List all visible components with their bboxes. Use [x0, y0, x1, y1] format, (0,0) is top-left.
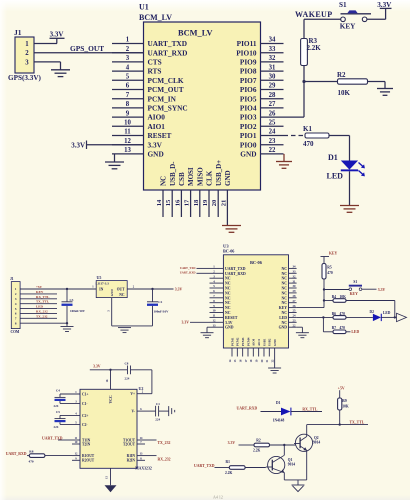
- svg-text:3: 3: [25, 59, 29, 66]
- svg-text:UART_TXD: UART_TXD: [180, 266, 196, 270]
- svg-text:R4: R4: [332, 295, 337, 299]
- svg-text:UART_RXD: UART_RXD: [6, 452, 27, 456]
- svg-text:Q1: Q1: [288, 458, 293, 462]
- svg-text:CSB: CSB: [178, 172, 186, 186]
- svg-text:MAX3232: MAX3232: [135, 467, 152, 471]
- svg-text:AIO1: AIO1: [148, 122, 166, 131]
- svg-text:224: 224: [54, 404, 59, 408]
- svg-text:21: 21: [266, 359, 269, 362]
- svg-text:NC: NC: [282, 301, 288, 305]
- svg-text:A4 12: A4 12: [213, 495, 223, 500]
- svg-text:9014: 9014: [288, 463, 295, 467]
- svg-text:100uF/16V: 100uF/16V: [154, 309, 170, 313]
- svg-text:C2-: C2-: [82, 423, 88, 427]
- svg-text:PIO2: PIO2: [240, 122, 257, 131]
- svg-text:WAKEUP: WAKEUP: [295, 10, 333, 19]
- svg-text:IN: IN: [99, 288, 103, 292]
- svg-text:NC: NC: [225, 311, 231, 315]
- svg-text:224: 224: [54, 425, 59, 429]
- svg-text:D2: D2: [370, 310, 375, 314]
- svg-text:GND: GND: [225, 326, 234, 330]
- svg-text:1N4148: 1N4148: [273, 418, 285, 422]
- svg-text:22: 22: [269, 147, 276, 154]
- svg-text:NC: NC: [119, 293, 125, 297]
- svg-text:33: 33: [293, 270, 297, 274]
- svg-text:VCC: VCC: [109, 395, 113, 403]
- svg-text:UART_TXD: UART_TXD: [225, 267, 246, 271]
- svg-text:20: 20: [211, 199, 218, 206]
- svg-text:4: 4: [126, 64, 130, 71]
- svg-text:MISO: MISO: [196, 167, 204, 186]
- svg-text:13: 13: [213, 323, 217, 327]
- svg-text:U1: U1: [139, 3, 149, 12]
- svg-text:PIO4: PIO4: [240, 104, 257, 113]
- svg-text:14: 14: [156, 199, 163, 206]
- svg-text:PCM_IN: PCM_IN: [148, 94, 177, 103]
- svg-text:LED: LED: [327, 172, 344, 181]
- svg-text:R7: R7: [332, 326, 337, 330]
- svg-text:C5: C5: [56, 410, 60, 414]
- svg-text:3.3V: 3.3V: [148, 140, 163, 149]
- svg-text:30: 30: [293, 284, 297, 288]
- svg-text:NC: NC: [225, 282, 231, 286]
- svg-text:R2: R2: [256, 439, 261, 443]
- svg-text:11: 11: [124, 129, 131, 136]
- svg-text:UART_TXD: UART_TXD: [148, 39, 187, 48]
- svg-text:28: 28: [293, 294, 297, 298]
- svg-text:12: 12: [213, 319, 217, 323]
- svg-text:PIO6: PIO6: [240, 85, 257, 94]
- svg-text:13: 13: [124, 147, 131, 154]
- svg-text:UART_RXD: UART_RXD: [148, 48, 188, 57]
- svg-text:LED: LED: [351, 330, 359, 334]
- svg-text:224: 224: [155, 417, 160, 421]
- svg-text:17: 17: [184, 199, 191, 206]
- svg-text:V+: V+: [130, 392, 135, 396]
- svg-text:32: 32: [269, 55, 276, 62]
- svg-text:3.3V: 3.3V: [377, 1, 392, 9]
- svg-text:2.2K: 2.2K: [225, 471, 232, 475]
- svg-text:R6: R6: [332, 312, 337, 316]
- svg-text:CTS: CTS: [148, 58, 162, 67]
- svg-text:470: 470: [327, 271, 333, 275]
- svg-text:470: 470: [29, 459, 34, 463]
- svg-text:KEY: KEY: [279, 306, 287, 310]
- svg-text:3.3V: 3.3V: [50, 30, 64, 38]
- svg-text:UART_RXD: UART_RXD: [225, 272, 246, 276]
- svg-text:12: 12: [124, 138, 131, 145]
- svg-text:11: 11: [213, 314, 216, 318]
- svg-text:R2IN: R2IN: [127, 459, 136, 463]
- svg-text:PCM_OUT: PCM_OUT: [148, 85, 184, 94]
- svg-text:25: 25: [293, 309, 297, 313]
- svg-text:PIO1: PIO1: [240, 131, 257, 140]
- svg-text:PIO5: PIO5: [240, 94, 257, 103]
- svg-text:18: 18: [250, 359, 253, 362]
- svg-text:NC: NC: [282, 272, 288, 276]
- svg-text:GND: GND: [279, 326, 288, 330]
- svg-text:470: 470: [340, 312, 346, 316]
- svg-text:L1117-3.3: L1117-3.3: [96, 281, 110, 285]
- svg-text:17: 17: [245, 359, 248, 362]
- svg-text:6: 6: [126, 83, 130, 90]
- svg-text:GND: GND: [224, 170, 232, 186]
- svg-text:TX_TTL: TX_TTL: [350, 421, 365, 425]
- svg-text:BCM_LV: BCM_LV: [178, 29, 213, 38]
- svg-text:3.3V: 3.3V: [93, 365, 101, 369]
- svg-text:NC: NC: [282, 282, 288, 286]
- svg-text:PCM_SYNC: PCM_SYNC: [148, 104, 188, 113]
- svg-text:J1: J1: [10, 277, 14, 281]
- svg-text:RESET: RESET: [148, 131, 172, 140]
- svg-text:PCM3: PCM3: [241, 337, 245, 346]
- svg-text:D1: D1: [276, 401, 281, 405]
- svg-text:USB2: USB2: [268, 338, 272, 346]
- svg-text:16: 16: [174, 199, 181, 206]
- svg-text:3.3V: 3.3V: [182, 321, 190, 325]
- svg-text:NC: NC: [225, 296, 231, 300]
- svg-text:18: 18: [193, 199, 200, 206]
- svg-text:C2: C2: [158, 300, 162, 304]
- svg-text:21: 21: [220, 200, 227, 207]
- svg-text:224: 224: [125, 376, 130, 380]
- svg-text:AIO0: AIO0: [252, 338, 256, 346]
- svg-text:GND: GND: [110, 289, 114, 297]
- svg-text:28: 28: [269, 92, 276, 99]
- svg-text:31: 31: [293, 279, 297, 283]
- svg-text:GND: GND: [148, 150, 164, 159]
- svg-text:PCM4: PCM4: [246, 337, 250, 346]
- svg-text:23: 23: [269, 138, 276, 145]
- svg-text:USB_D-: USB_D-: [169, 161, 177, 186]
- svg-text:32: 32: [293, 274, 297, 278]
- svg-text:16: 16: [239, 359, 242, 362]
- svg-text:RX_TTL: RX_TTL: [36, 295, 50, 299]
- svg-text:MOSI: MOSI: [187, 167, 195, 186]
- svg-text:AIO0: AIO0: [148, 113, 166, 122]
- svg-text:NC: NC: [225, 301, 231, 305]
- svg-text:470: 470: [303, 140, 314, 148]
- svg-text:UART_TXD: UART_TXD: [194, 464, 215, 468]
- svg-text:UART_RXD: UART_RXD: [237, 406, 258, 410]
- svg-text:8: 8: [126, 101, 130, 108]
- svg-text:2: 2: [133, 286, 135, 289]
- svg-text:9: 9: [126, 110, 130, 117]
- svg-text:10: 10: [124, 120, 131, 127]
- svg-text:R1OUT: R1OUT: [82, 454, 95, 458]
- svg-text:2: 2: [142, 391, 144, 394]
- svg-text:24: 24: [293, 314, 297, 318]
- svg-text:KEY: KEY: [350, 292, 358, 296]
- svg-text:GND: GND: [273, 339, 277, 347]
- svg-text:NC: NC: [282, 311, 288, 315]
- svg-text:15: 15: [165, 199, 172, 206]
- svg-text:R1: R1: [226, 460, 231, 464]
- svg-text:NC: NC: [225, 306, 231, 310]
- svg-text:34: 34: [293, 265, 297, 269]
- svg-text:10K: 10K: [342, 404, 349, 408]
- svg-text:GND: GND: [240, 150, 256, 159]
- svg-text:R1IN: R1IN: [127, 454, 136, 458]
- svg-text:3.3V: 3.3V: [175, 287, 183, 291]
- svg-text:29: 29: [293, 289, 297, 293]
- svg-text:100uF/10V: 100uF/10V: [70, 309, 86, 313]
- svg-text:+5V: +5V: [36, 285, 43, 289]
- svg-text:10: 10: [213, 309, 217, 313]
- svg-text:OUT: OUT: [117, 288, 125, 292]
- svg-text:26: 26: [269, 110, 276, 117]
- svg-text:C8: C8: [125, 361, 129, 365]
- svg-text:USB_D+: USB_D+: [215, 160, 223, 186]
- svg-text:UART_RXD: UART_RXD: [180, 271, 196, 275]
- svg-text:NC: NC: [282, 296, 288, 300]
- svg-text:34: 34: [269, 37, 276, 44]
- svg-text:27: 27: [269, 101, 276, 108]
- svg-text:RTS: RTS: [148, 67, 162, 76]
- svg-text:PIO9: PIO9: [240, 58, 257, 67]
- svg-text:9014: 9014: [313, 441, 320, 445]
- svg-text:RESET: RESET: [225, 316, 238, 320]
- svg-text:5: 5: [126, 74, 130, 81]
- svg-text:7: 7: [126, 92, 130, 99]
- svg-text:3: 3: [126, 55, 130, 62]
- svg-text:16: 16: [106, 379, 109, 382]
- svg-text:GPS(3.3V): GPS(3.3V): [8, 74, 42, 82]
- svg-text:PCM_CLK: PCM_CLK: [148, 76, 184, 85]
- svg-text:22: 22: [271, 359, 274, 362]
- svg-text:TX_232: TX_232: [158, 441, 171, 445]
- svg-text:14: 14: [229, 359, 232, 362]
- svg-text:R8: R8: [29, 450, 33, 454]
- svg-text:+5V: +5V: [338, 387, 345, 391]
- svg-text:1: 1: [25, 41, 29, 48]
- svg-text:PCM1: PCM1: [230, 337, 234, 346]
- svg-text:NC: NC: [225, 277, 231, 281]
- svg-text:Q2: Q2: [314, 436, 319, 440]
- svg-text:R9: R9: [342, 399, 347, 403]
- svg-text:KEY: KEY: [340, 23, 356, 31]
- svg-text:22: 22: [293, 323, 297, 327]
- svg-text:PIO7: PIO7: [240, 76, 257, 85]
- svg-text:30: 30: [269, 74, 276, 81]
- svg-text:27: 27: [293, 299, 297, 303]
- svg-text:C1-: C1-: [82, 402, 88, 406]
- svg-text:PIO8: PIO8: [240, 67, 257, 76]
- svg-text:K1: K1: [303, 125, 312, 133]
- svg-text:AIO1: AIO1: [257, 338, 261, 346]
- svg-text:PIO0: PIO0: [240, 140, 257, 149]
- svg-text:15: 15: [234, 359, 237, 362]
- svg-text:NC: NC: [282, 321, 288, 325]
- svg-text:C2+: C2+: [82, 414, 88, 418]
- svg-text:LED: LED: [383, 311, 391, 315]
- svg-text:PCM2: PCM2: [236, 337, 240, 346]
- svg-text:C3: C3: [70, 298, 74, 302]
- svg-text:NC: NC: [282, 277, 288, 281]
- svg-text:31: 31: [269, 64, 276, 71]
- svg-text:29: 29: [269, 83, 276, 90]
- svg-text:BCM_LV: BCM_LV: [139, 13, 172, 22]
- svg-text:TX_232: TX_232: [36, 314, 48, 318]
- svg-text:KEY: KEY: [36, 290, 44, 294]
- svg-text:NC: NC: [225, 291, 231, 295]
- svg-text:3: 3: [107, 310, 110, 312]
- svg-text:19: 19: [255, 359, 258, 362]
- svg-text:C1+: C1+: [82, 392, 88, 396]
- svg-text:NC: NC: [282, 291, 288, 295]
- svg-text:LED: LED: [36, 305, 44, 309]
- svg-text:NC: NC: [282, 267, 288, 271]
- svg-text:RX_232: RX_232: [158, 458, 171, 462]
- svg-text:3.3V: 3.3V: [378, 288, 386, 292]
- svg-text:23: 23: [293, 319, 297, 323]
- svg-text:J1: J1: [14, 28, 22, 37]
- svg-text:15: 15: [106, 476, 109, 479]
- svg-text:3.3V: 3.3V: [225, 321, 233, 325]
- svg-text:25: 25: [269, 120, 276, 127]
- svg-text:2: 2: [126, 46, 130, 53]
- svg-text:2: 2: [25, 50, 29, 57]
- svg-text:USB1: USB1: [262, 338, 266, 346]
- svg-text:TX_TTL: TX_TTL: [36, 300, 50, 304]
- svg-text:26: 26: [293, 304, 297, 308]
- svg-text:C4: C4: [56, 389, 60, 393]
- svg-text:NC: NC: [225, 287, 231, 291]
- svg-text:BC-06: BC-06: [250, 260, 263, 265]
- svg-text:LED: LED: [279, 316, 287, 320]
- svg-text:1: 1: [126, 37, 130, 44]
- svg-text:24: 24: [269, 129, 276, 136]
- svg-text:R2: R2: [337, 71, 346, 79]
- svg-text:S1: S1: [353, 280, 357, 284]
- svg-text:NC: NC: [160, 176, 168, 186]
- svg-text:KEY: KEY: [329, 252, 337, 256]
- svg-text:R5: R5: [327, 266, 332, 270]
- svg-text:2.2K: 2.2K: [253, 448, 260, 452]
- svg-text:T2OUT: T2OUT: [123, 442, 136, 446]
- svg-text:BC-06: BC-06: [223, 248, 234, 253]
- svg-text:S1: S1: [339, 1, 347, 9]
- svg-text:470: 470: [340, 326, 346, 330]
- svg-text:COM: COM: [11, 330, 20, 334]
- svg-text:D1: D1: [328, 153, 338, 162]
- svg-text:1: 1: [92, 286, 94, 289]
- svg-text:RX_TTL: RX_TTL: [302, 408, 317, 412]
- svg-text:PIO11: PIO11: [237, 39, 257, 48]
- svg-text:GPS_OUT: GPS_OUT: [70, 44, 104, 53]
- svg-text:U5: U5: [97, 275, 102, 280]
- svg-text:T2IN: T2IN: [82, 442, 91, 446]
- svg-text:19: 19: [202, 199, 209, 206]
- svg-text:3.3V: 3.3V: [71, 141, 85, 149]
- svg-text:C1: C1: [156, 402, 160, 406]
- svg-text:10K: 10K: [338, 89, 351, 97]
- svg-text:R2OUT: R2OUT: [82, 459, 95, 463]
- svg-text:2.2K: 2.2K: [307, 44, 322, 52]
- svg-text:10K: 10K: [340, 295, 347, 299]
- svg-text:PIO10: PIO10: [236, 48, 257, 57]
- svg-text:20: 20: [261, 359, 264, 362]
- svg-text:33: 33: [269, 46, 276, 53]
- svg-text:3.3V: 3.3V: [228, 441, 236, 445]
- svg-text:PIO3: PIO3: [240, 113, 257, 122]
- svg-text:RX_232: RX_232: [36, 309, 48, 313]
- svg-text:CLK: CLK: [206, 170, 214, 186]
- svg-text:NC: NC: [282, 287, 288, 291]
